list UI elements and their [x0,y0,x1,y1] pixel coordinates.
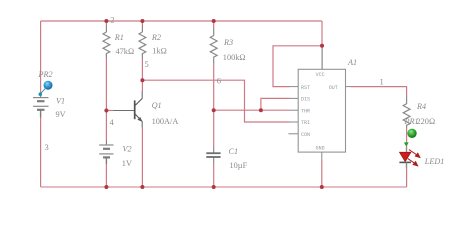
svg-text:1V: 1V [122,159,132,168]
probe PR1 [404,129,417,147]
pin stub GND [321,152,323,160]
svg-text:THR: THR [301,108,310,114]
node dot rail V2 [104,185,108,189]
svg-text:LED1: LED1 [424,157,445,166]
op-amp/timer U A1 chip body [289,47,351,161]
wire left vertical net 2/3 [40,21,42,94]
pin stub DIS [290,97,299,99]
svg-text:TRI: TRI [301,120,310,126]
svg-text:10µF: 10µF [230,161,248,170]
node dot rail C1 [212,185,216,189]
svg-text:CON: CON [301,132,310,138]
wire top rail net 2 [41,20,322,22]
resistor R4 [403,97,410,129]
svg-text:5: 5 [145,59,149,69]
wire node 4 to Q1 base [106,110,113,112]
node dot rail Q1 [140,185,144,189]
wire R1 bottom to node 4 to V2 [105,54,107,59]
svg-text:VA: VA [409,131,415,136]
transistor Q1 [135,80,143,187]
pin stub OUT [346,86,351,88]
svg-text:C1: C1 [229,147,239,156]
wire R2 bottom net 5 [141,54,143,59]
svg-text:VCC: VCC [316,72,325,78]
wire R2 top lead [141,21,143,26]
wire C1 bottom [213,157,215,163]
wire LED bottom [406,163,408,187]
svg-text:47kΩ: 47kΩ [116,47,135,56]
svg-text:R3: R3 [223,38,233,47]
svg-text:1: 1 [380,77,384,87]
node dot VCC junction [320,44,324,48]
wire R3 top lead [213,21,215,28]
resistor R3 [210,36,217,59]
node dot rail GND [320,185,324,189]
LED emission arrow 1 [409,150,416,155]
wire C1 top [213,110,215,147]
svg-text:V1: V1 [56,97,65,106]
pin stub TRI [290,121,299,123]
wire VCC drop [321,21,323,46]
wire RST branch [273,46,322,87]
svg-text:4: 4 [110,117,115,127]
wire OUT net 1 [351,87,407,97]
wire R3 bottom net 6 [213,59,215,64]
battery V1 [33,94,49,118]
svg-text:R4: R4 [416,102,426,111]
pin stub VCC [321,47,323,70]
wire bottom rail net 0 [41,186,407,188]
svg-text:100kΩ: 100kΩ [223,53,246,62]
wire R1 top lead [105,21,107,26]
node dot node 5 [140,78,144,82]
svg-text:1kΩ: 1kΩ [152,47,166,56]
svg-text:OUT: OUT [329,85,338,91]
battery V2 [99,145,113,164]
pin stub THR [290,109,299,111]
node dot node 6 C1 [212,108,216,112]
svg-text:PR2: PR2 [38,70,53,79]
svg-text:DIS: DIS [301,97,310,103]
pin stub CON [289,133,299,135]
svg-text:R1: R1 [114,33,124,42]
svg-text:V2: V2 [123,145,132,154]
node dot top R3 [212,19,216,23]
wire net 5 to TRI [142,80,289,122]
wire V1 bottom net 3 [40,117,42,187]
svg-text:GND: GND [316,145,325,151]
svg-text:9V: 9V [56,110,66,119]
probe PR2 [39,81,53,96]
pin stub RST [290,86,299,88]
resistor R1 [103,32,110,56]
node dot top R1 [104,19,108,23]
wire DIS branch [261,98,290,110]
node dot top R2 [140,19,144,23]
wire net 6 to THR [214,109,290,111]
LED emission arrow 2 [408,159,414,163]
svg-text:100A/A: 100A/A [152,117,179,126]
node dot DIS/THR [259,108,263,112]
svg-text:6: 6 [217,75,221,85]
svg-text:Q1: Q1 [152,101,162,110]
node A probe attach [39,92,43,96]
LED LED1 [399,148,420,169]
svg-text:R2: R2 [151,33,161,42]
svg-text:3: 3 [45,142,49,152]
resistor R2 [139,32,146,56]
wire R4 bottom to LED [406,128,408,152]
svg-text:220Ω: 220Ω [417,117,436,126]
capacitor C1 [206,153,220,157]
wire GND to rail [321,160,323,187]
svg-text:RST: RST [301,85,310,91]
svg-text:A1: A1 [347,58,357,67]
node dot node 4 [104,109,108,113]
svg-text:VA: VA [45,83,51,88]
wire V2 bottom [105,164,107,187]
svg-text:2: 2 [110,14,114,24]
